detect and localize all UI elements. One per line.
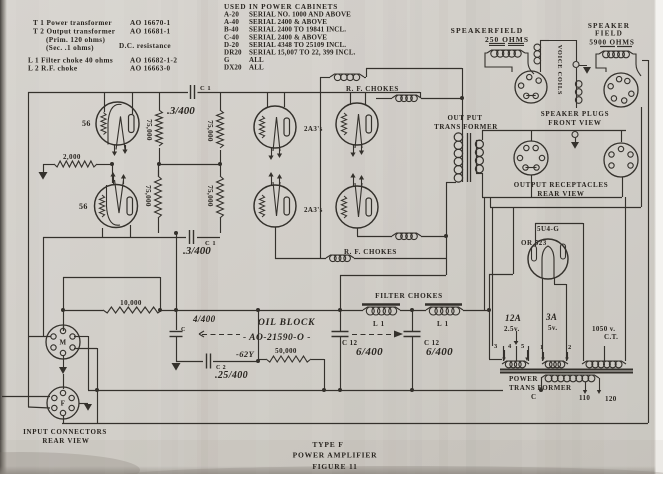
svg-text:- AO-21590-O -: - AO-21590-O - [243, 333, 311, 343]
svg-text:3: 3 [494, 343, 498, 350]
svg-text:1050 v.: 1050 v. [592, 325, 615, 333]
svg-text:T 2 Output transformer: T 2 Output transformer [33, 28, 116, 36]
svg-text:250 OHMS: 250 OHMS [485, 35, 529, 44]
svg-text:120: 120 [605, 395, 617, 403]
svg-text:OUT PUT: OUT PUT [448, 114, 483, 122]
svg-text:C.T.: C.T. [604, 333, 618, 341]
svg-text:5: 5 [521, 343, 525, 350]
svg-text:R. F. CHOKES: R. F. CHOKES [346, 85, 399, 93]
svg-text:L 2 R.F. choke: L 2 R.F. choke [28, 65, 77, 73]
svg-text:75,000: 75,000 [206, 120, 214, 142]
svg-text:SPEAKER PLUGS: SPEAKER PLUGS [541, 110, 610, 118]
svg-text:2,000: 2,000 [63, 153, 81, 161]
svg-text:56: 56 [82, 119, 91, 128]
svg-text:.3/400: .3/400 [183, 245, 211, 257]
svg-text:75,000: 75,000 [145, 119, 153, 141]
svg-text:C: C [181, 327, 186, 333]
svg-text:POWER: POWER [509, 375, 538, 383]
svg-text:2: 2 [568, 344, 572, 351]
svg-text:AO 16663-0: AO 16663-0 [130, 65, 171, 73]
svg-text:T 1 Power transformer: T 1 Power transformer [33, 19, 112, 27]
svg-text:REAR VIEW: REAR VIEW [537, 190, 584, 198]
svg-text:1: 1 [540, 344, 544, 351]
svg-text:SERIAL 15,007 TO 22, 399 INCL.: SERIAL 15,007 TO 22, 399 INCL. [249, 49, 356, 57]
svg-text:POWER AMPLIFIER: POWER AMPLIFIER [293, 451, 378, 460]
svg-text:REAR VIEW: REAR VIEW [42, 437, 89, 445]
svg-text:10,000: 10,000 [120, 299, 142, 307]
svg-text:C: C [531, 393, 536, 401]
svg-text:AO 16682-1-2: AO 16682-1-2 [130, 57, 177, 65]
svg-text:VOICE COILS: VOICE COILS [556, 45, 563, 96]
svg-text:2A3's: 2A3's [304, 206, 323, 214]
svg-text:-62Y: -62Y [236, 349, 255, 359]
svg-text:FIGURE 11: FIGURE 11 [312, 462, 357, 471]
svg-text:AO 16670-1: AO 16670-1 [130, 19, 171, 27]
svg-text:5U4-G: 5U4-G [537, 225, 559, 233]
svg-text:INPUT CONNECTORS: INPUT CONNECTORS [23, 428, 107, 436]
svg-text:FILTER CHOKES: FILTER CHOKES [375, 292, 443, 300]
svg-text:F: F [61, 400, 66, 408]
svg-text:(Prim. 120 ohms): (Prim. 120 ohms) [46, 36, 106, 44]
svg-text:4/400: 4/400 [192, 314, 216, 324]
svg-text:M: M [59, 339, 66, 347]
svg-text:75,000: 75,000 [206, 185, 214, 207]
svg-text:FRONT VIEW: FRONT VIEW [548, 119, 601, 127]
svg-text:TYPE F: TYPE F [312, 440, 343, 449]
svg-text:5900 OHMS: 5900 OHMS [589, 39, 634, 47]
svg-text:5v.: 5v. [548, 324, 558, 332]
svg-text:ALL: ALL [249, 64, 264, 72]
svg-text:TRANS FORMER: TRANS FORMER [509, 384, 572, 392]
svg-text:D.C. resistance: D.C. resistance [119, 42, 171, 50]
svg-text:L 1: L 1 [437, 320, 449, 328]
svg-text:110: 110 [579, 394, 590, 402]
svg-text:TRANS FORMER: TRANS FORMER [434, 123, 498, 131]
svg-text:12A: 12A [505, 313, 521, 323]
svg-text:R. F. CHOKES: R. F. CHOKES [344, 248, 397, 256]
svg-text:56: 56 [79, 202, 88, 211]
svg-text:(Sec. .1 ohms): (Sec. .1 ohms) [46, 44, 94, 52]
svg-text:6/400: 6/400 [356, 346, 383, 358]
svg-text:.25/400: .25/400 [215, 370, 248, 381]
svg-text:C 1: C 1 [200, 85, 211, 92]
svg-text:.3/400: .3/400 [167, 105, 195, 117]
svg-text:FIELD: FIELD [595, 30, 623, 38]
svg-text:6/400: 6/400 [426, 346, 453, 358]
svg-text:AO 16681-1: AO 16681-1 [130, 28, 171, 36]
svg-text:OUTPUT RECEPTACLES: OUTPUT RECEPTACLES [514, 181, 609, 189]
svg-text:DX20: DX20 [224, 64, 242, 72]
svg-text:SPEAKERFIELD: SPEAKERFIELD [451, 26, 524, 35]
svg-text:L 1 Filter choke 40 ohms: L 1 Filter choke 40 ohms [28, 57, 113, 65]
svg-text:50,000: 50,000 [275, 347, 297, 355]
svg-text:3A: 3A [545, 312, 557, 322]
svg-text:75,000: 75,000 [144, 185, 152, 207]
svg-text:L 1: L 1 [373, 320, 385, 328]
svg-text:OIL BLOCK: OIL BLOCK [258, 318, 315, 328]
svg-text:2A3's: 2A3's [304, 125, 323, 133]
svg-text:2.5v.: 2.5v. [504, 325, 520, 333]
svg-text:4: 4 [508, 343, 512, 350]
